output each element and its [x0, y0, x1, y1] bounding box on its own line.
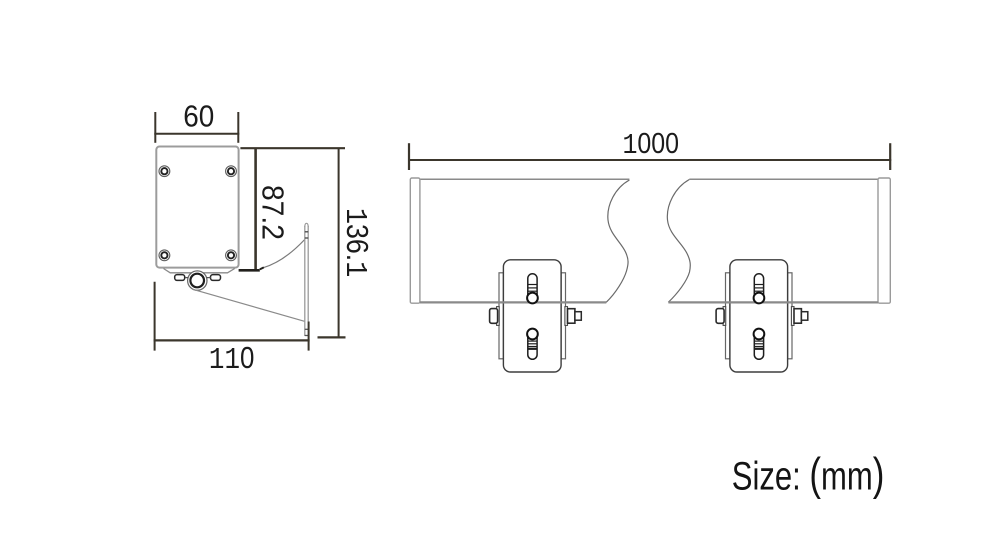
dim 110 line — [154, 339, 310, 341]
dim 87.2 line — [254, 148, 257, 270]
bracket gusset upper curve — [263, 240, 304, 268]
fixture body (side view) — [156, 147, 238, 268]
screw top-right — [226, 166, 237, 177]
hinge tab-to-pivot link right — [206, 277, 211, 279]
wall plate slot tick — [305, 328, 308, 330]
wall plate top cap — [305, 223, 308, 227]
mounting base trapezoid under body — [164, 269, 235, 273]
body bottom line right segment — [668, 301, 878, 303]
bracket 2 upper slide bolt — [754, 274, 765, 304]
hinge tab-to-pivot link left — [185, 277, 189, 279]
wall plate tick 2 — [305, 237, 308, 239]
bracket plate — [503, 260, 561, 372]
dim 60 extension right — [237, 112, 239, 143]
wall plate left edge — [304, 226, 306, 336]
bracket gusset lower edge — [192, 289, 304, 321]
left bolt head — [490, 309, 498, 324]
wall plate right edge — [307, 226, 309, 322]
dim 136.1 bottom tick — [318, 336, 346, 338]
left break S-curve — [606, 180, 629, 302]
wall plate tick 1 — [305, 231, 308, 233]
right break S-curve — [667, 180, 690, 303]
bracket plate — [730, 260, 788, 372]
mounting bracket 2 — [716, 260, 808, 372]
svg-text:60: 60 — [183, 99, 214, 134]
bracket 1 lower slide bolt — [527, 329, 538, 360]
hinge tab right — [211, 275, 221, 281]
svg-text:110: 110 — [209, 341, 254, 378]
mounting bracket 1 — [490, 260, 582, 372]
dim 136.1 line — [338, 148, 340, 337]
right bolt washer — [791, 307, 794, 326]
bracket flange right — [788, 273, 792, 359]
body bottom line left segment — [420, 301, 606, 303]
pivot hinge outer — [188, 271, 207, 290]
bracket flange left — [499, 273, 503, 359]
svg-text:87.2: 87.2 — [255, 185, 290, 240]
dim 110 extension right — [308, 322, 310, 351]
bracket flange left — [726, 273, 730, 359]
svg-text:136.1: 136.1 — [338, 208, 374, 277]
left bolt washer — [497, 307, 500, 326]
pivot hinge inner — [190, 274, 204, 288]
dim 110 extension left — [154, 282, 156, 351]
right bolt washer — [565, 307, 568, 326]
dim 1000 tick left — [408, 143, 410, 170]
hinge tab left — [175, 275, 185, 281]
right bolt nut — [568, 309, 575, 324]
bracket 2 lower slide bolt — [754, 329, 765, 360]
screw bottom-left — [159, 250, 170, 261]
bracket flange right — [561, 273, 565, 359]
left bolt washer — [723, 307, 726, 326]
left end cap — [410, 178, 420, 303]
right end cap — [878, 178, 890, 303]
dim 87.2 oblique dash — [260, 267, 264, 269]
left bolt head — [716, 309, 724, 324]
dim 1000 line — [408, 159, 891, 161]
right bolt shank — [801, 312, 807, 321]
wall plate bottom tick — [305, 335, 308, 337]
dim 87.2 bottom tick — [239, 269, 260, 272]
dim 60 extension left — [154, 112, 156, 143]
screw bottom-right — [226, 250, 237, 261]
svg-text:Size: (mm): Size: (mm) — [732, 449, 885, 499]
body top line right segment — [689, 178, 878, 180]
dim 60 line — [154, 133, 239, 135]
dim 136.1 top extension — [240, 147, 345, 149]
dim 1000 tick right — [889, 143, 891, 170]
right bolt shank — [575, 312, 581, 321]
svg-text:1000: 1000 — [622, 127, 679, 162]
body top line left segment — [420, 178, 630, 180]
bracket 1 upper slide bolt — [527, 274, 538, 304]
right bolt nut — [794, 309, 801, 324]
screw top-left — [159, 166, 170, 177]
